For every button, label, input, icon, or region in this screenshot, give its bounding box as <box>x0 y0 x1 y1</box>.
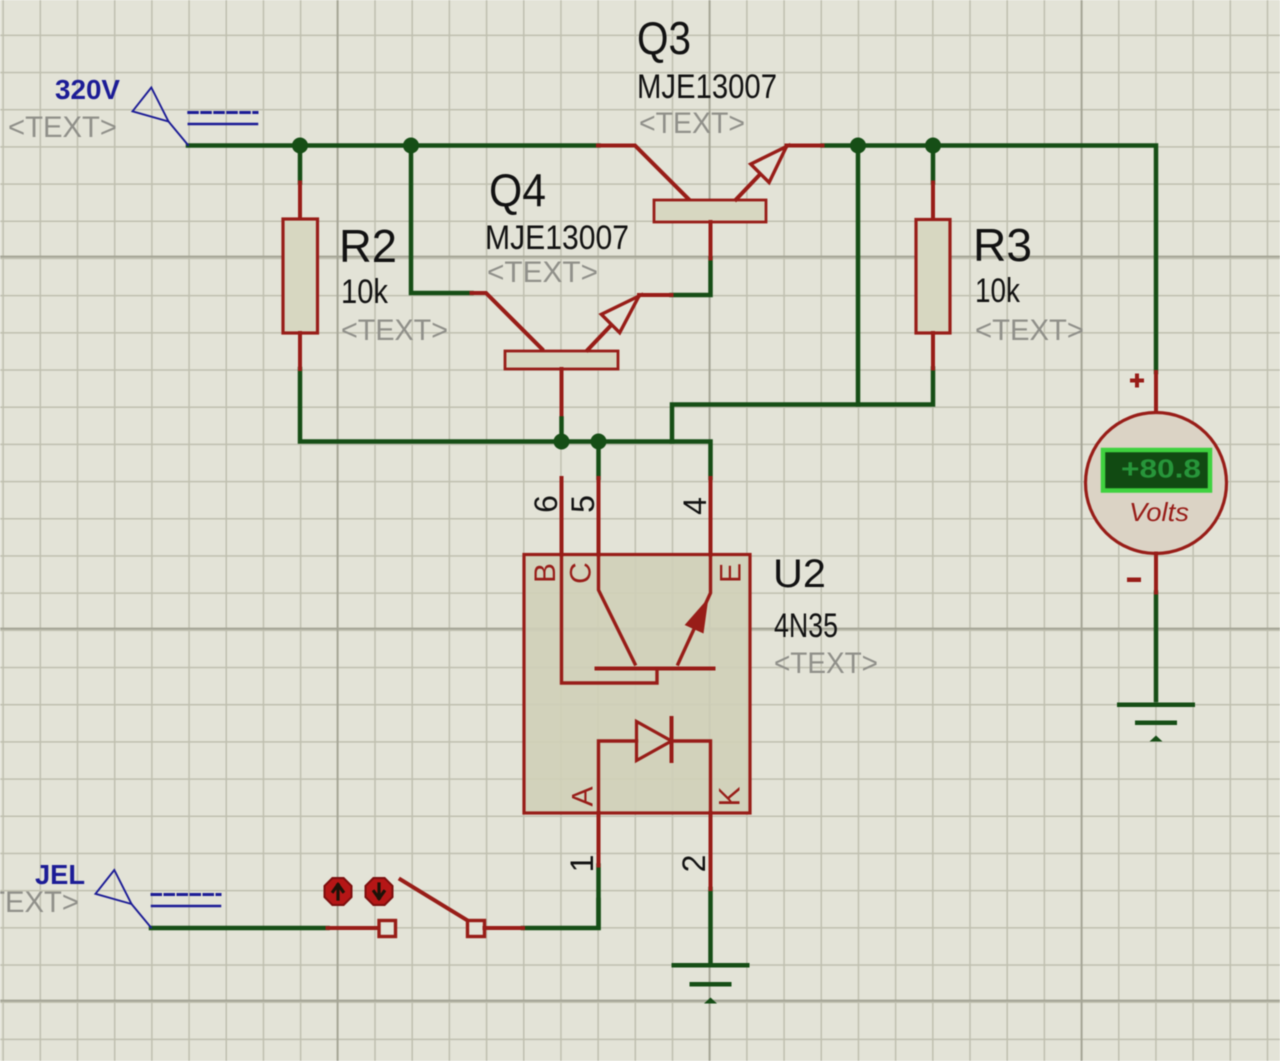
pin number 2 <box>676 855 712 873</box>
wire JEL to switch <box>151 926 328 931</box>
svg-text:2: 2 <box>676 855 712 873</box>
wire R3 top <box>931 146 936 183</box>
transistor Q4 <box>472 293 672 442</box>
svg-text:K: K <box>714 786 747 806</box>
voltmeter body <box>1154 372 1158 413</box>
svg-text:<TEXT>: <TEXT> <box>0 886 79 919</box>
node junction dot bus pin5 <box>591 434 607 450</box>
voltmeter minus mark <box>1127 578 1141 583</box>
switch actuator up button <box>325 878 352 905</box>
opto-coupler U2 body <box>524 555 750 814</box>
pin letter C <box>565 562 598 584</box>
node junction dot rail Q4 <box>403 138 419 154</box>
node junction dot rail R3 <box>925 138 941 154</box>
wire R3 bottom branch <box>672 369 933 442</box>
svg-text:MJE13007: MJE13007 <box>485 219 629 257</box>
svg-text:Volts: Volts <box>1129 497 1189 527</box>
pin number 4 <box>677 497 713 515</box>
svg-text:<TEXT>: <TEXT> <box>8 111 117 144</box>
wire pin2 to ground <box>708 889 713 963</box>
wire R2 top <box>298 146 303 183</box>
ground below U2 pin2 <box>672 963 750 1004</box>
svg-text:<TEXT>: <TEXT> <box>639 107 745 140</box>
voltmeter plus mark <box>1130 374 1144 388</box>
ground below voltmeter <box>1117 703 1195 742</box>
U2 pin 5 stub <box>597 478 601 555</box>
svg-text:B: B <box>529 563 562 583</box>
pin number 1 <box>564 855 600 873</box>
svg-text:10k: 10k <box>341 273 389 311</box>
voltmeter LCD display <box>1103 450 1210 491</box>
svg-text:U2: U2 <box>773 552 826 596</box>
wire pin5 from bus <box>596 442 601 479</box>
node junction dot rail R2 <box>292 138 308 154</box>
pin letter K <box>714 786 747 806</box>
svg-text:<TEXT>: <TEXT> <box>487 256 598 289</box>
U2 pin 4 stub <box>709 478 713 555</box>
U2 pin 2 stub <box>709 813 713 889</box>
switch SW lever <box>401 880 467 920</box>
switch SW right contact <box>468 921 485 937</box>
wire rail right to voltmeter <box>823 146 1157 373</box>
pin letter B <box>529 563 562 583</box>
U2 internal phototransistor <box>562 555 714 684</box>
svg-text:1: 1 <box>564 855 600 873</box>
pin number 5 <box>565 495 601 513</box>
wire 320V rail left <box>188 143 599 148</box>
wire pin1 down <box>596 866 601 928</box>
svg-text:C: C <box>565 562 598 584</box>
pin letter E <box>715 563 748 583</box>
power terminal 320V <box>133 88 258 146</box>
svg-text:10k: 10k <box>975 272 1021 310</box>
switch actuator down button <box>366 878 393 905</box>
transistor Q3 <box>598 146 823 259</box>
svg-text:<TEXT>: <TEXT> <box>341 314 448 347</box>
node junction dot bus Q4 base <box>554 434 570 450</box>
wire voltmeter to ground <box>1154 593 1159 701</box>
svg-text:+80.8: +80.8 <box>1121 454 1201 484</box>
svg-text:4: 4 <box>677 497 713 515</box>
pin number 6 <box>528 495 564 513</box>
svg-text:5: 5 <box>565 495 601 513</box>
terminal JEL <box>96 870 221 928</box>
svg-text:320V: 320V <box>55 74 120 105</box>
wire switch to pin1 <box>523 900 599 928</box>
svg-text:Q3: Q3 <box>637 12 691 64</box>
U2 internal LED <box>599 718 711 813</box>
svg-text:R3: R3 <box>973 219 1032 271</box>
node junction dot rail x858 <box>850 138 866 154</box>
svg-text:E: E <box>715 563 748 583</box>
pin letter A <box>567 786 600 806</box>
wire rail to R3-bottom node <box>856 146 861 405</box>
svg-text:R2: R2 <box>339 220 397 272</box>
svg-text:MJE13007: MJE13007 <box>637 68 777 106</box>
svg-text:<TEXT>: <TEXT> <box>975 314 1084 347</box>
svg-text:6: 6 <box>528 495 564 513</box>
resistor R2 <box>283 183 318 370</box>
svg-text:4N35: 4N35 <box>774 607 838 645</box>
wire Q4 collector branch <box>411 146 472 294</box>
switch SW left contact <box>328 926 380 930</box>
U2 pin 1 stub <box>597 813 601 866</box>
wire Q4 emitter to Q3 base <box>672 259 711 296</box>
wire R2 bottom to bus and pin4 <box>300 369 711 478</box>
resistor R3 <box>916 183 950 369</box>
U2 pin 6 stub <box>560 478 564 555</box>
svg-text:A: A <box>567 786 600 806</box>
svg-text:<TEXT>: <TEXT> <box>774 647 878 680</box>
svg-text:Q4: Q4 <box>489 164 546 216</box>
